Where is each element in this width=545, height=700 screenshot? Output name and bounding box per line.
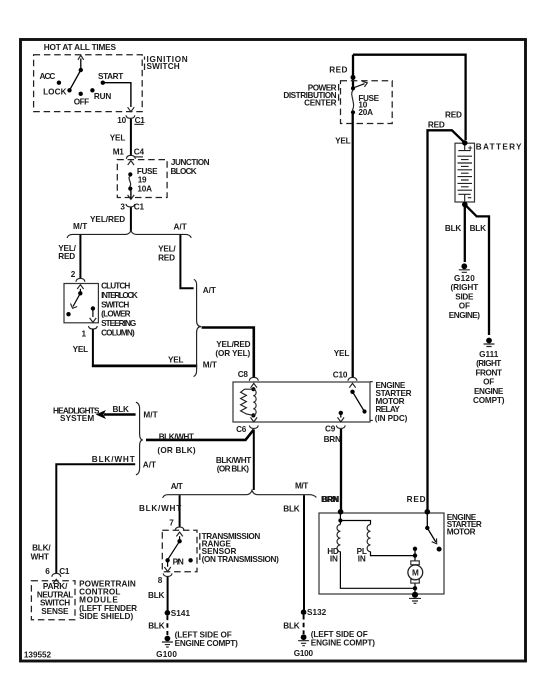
battery [455,143,475,202]
svg-text:SENSE: SENSE [41,607,69,616]
svg-text:BRN: BRN [322,495,339,504]
svg-text:C9: C9 [325,425,336,434]
svg-text:M1: M1 [113,147,125,156]
wire BLK/WHT (A/T) to PCM [56,464,135,573]
connector clutch pin 2 [76,278,85,281]
svg-text:BLK/WHT: BLK/WHT [159,432,194,441]
svg-text:(IN PDC): (IN PDC) [375,414,408,423]
svg-text:STEERING: STEERING [101,319,136,328]
svg-text:(RIGHT: (RIGHT [476,359,501,368]
power feed rail RED [353,55,466,140]
svg-text:M/T: M/T [143,410,157,419]
svg-text:C8: C8 [238,370,249,379]
svg-text:ENGINE): ENGINE) [449,311,480,320]
svg-text:G120: G120 [454,274,475,283]
svg-text:M: M [412,569,419,578]
svg-text:YEL: YEL [168,355,184,364]
connector PCM C1 pin 6 [52,573,61,576]
svg-text:G100: G100 [294,649,314,658]
svg-text:RED: RED [329,66,347,75]
arrow exiting ignition box [128,107,135,112]
relay coil [241,387,257,417]
svg-text:(OR BLK): (OR BLK) [157,446,195,455]
svg-text:S141: S141 [171,609,191,618]
wire C1 to split brace [130,207,132,231]
svg-text:BATTERY: BATTERY [476,142,522,151]
svg-text:1: 1 [82,329,87,338]
connector clutch pin 1 [89,326,98,329]
engine starter motor relay box [233,382,370,422]
svg-text:BLK/WHT: BLK/WHT [216,456,251,465]
svg-text:SYSTEM: SYSTEM [60,414,94,423]
svg-text:3: 3 [120,202,125,211]
lower A/T M/T split brace [163,490,317,498]
svg-text:CLUTCH: CLUTCH [101,282,130,291]
svg-text:C6: C6 [236,425,247,434]
label TRANSMISSION RANGE SENSOR (ON TRANSMISSION) [199,533,201,560]
svg-text:7: 7 [169,518,174,527]
svg-text:M/T: M/T [295,482,308,491]
wire BRN relay C9 to starter [340,429,342,512]
ground G120 [449,263,480,319]
powertrain control module dashed box (park/neutral switch sense) [31,581,75,620]
svg-text:(LEFT SIDE OF: (LEFT SIDE OF [175,630,232,639]
arrow exiting junction block + connector C1 pin 3 [130,191,132,200]
label ENGINE STARTER MOTOR RELAY (IN PDC) [370,381,412,423]
connector TRS pin 8 [163,573,172,576]
dashed wire BLK S132 to G100 [303,615,305,634]
transmission range sensor dashed box [162,530,197,572]
svg-text:START: START [98,72,123,81]
svg-text:6: 6 [45,567,50,576]
A/T M/T merge brace [194,279,202,376]
svg-text:BLK: BLK [283,622,300,631]
svg-text:CENTER: CENTER [304,98,337,107]
svg-text:YEL/: YEL/ [158,244,176,253]
svg-text:A/T: A/T [143,460,156,469]
svg-text:10A: 10A [137,184,152,193]
svg-text:RED: RED [407,495,426,504]
svg-text:A/T: A/T [203,286,216,295]
svg-text:BLK: BLK [148,591,165,600]
svg-text:YEL/RED: YEL/RED [216,340,250,349]
svg-text:M/T: M/T [203,361,217,370]
starter feed wire RED from battery [428,130,465,512]
svg-text:C1: C1 [134,202,145,211]
wire BLK battery to G111 [465,205,489,336]
svg-text:RUN: RUN [94,92,111,101]
svg-text:SIDE: SIDE [455,292,474,301]
M/T A/T split brace [67,231,191,238]
ground G100 left [156,636,177,659]
svg-text:2: 2 [71,270,76,279]
relay coil exit arrow C6 [251,417,258,422]
ignition switch internals [40,55,124,106]
clutch switch internals [66,285,96,323]
right branch wire YEL/RED (A/T) [180,235,193,288]
headlights M/T A/T brace [136,402,143,475]
svg-text:S132: S132 [307,608,327,617]
svg-text:SIDE SHIELD): SIDE SHIELD) [79,612,133,621]
svg-text:RED: RED [428,120,445,129]
junction dot [351,75,356,80]
svg-text:OFF: OFF [74,98,89,107]
wire C6 down to lower brace [253,430,255,491]
svg-text:(ON TRANSMISSION): (ON TRANSMISSION) [202,555,279,564]
wire START to C1 [103,83,131,107]
svg-text:C10: C10 [333,371,348,380]
svg-text:INTERLOCK: INTERLOCK [101,291,138,300]
wire rail to PDC [352,55,354,89]
splice S132 [301,609,307,615]
svg-text:COLUMN): COLUMN) [101,329,135,338]
svg-text:BLK: BLK [445,224,462,233]
junction dots on starter box top [338,509,344,515]
connector TRS pin 7 [175,527,184,530]
svg-text:BLK: BLK [283,504,300,513]
clutch interlock switch box [64,284,98,323]
svg-text:YEL/RED: YEL/RED [90,215,125,224]
relay switch [339,390,367,416]
TRS switch internals [164,532,192,571]
wire YEL/RED (OR YEL) to relay C8 [202,328,254,378]
motor M [411,561,420,565]
svg-text:WHT: WHT [31,552,49,561]
wire YEL ignition to junction block [130,119,132,155]
dashed wire BLK S141 to G100 [166,616,168,635]
ground at starter motor [409,592,421,604]
wire BLK lower brace to S132 [303,495,305,610]
svg-text:C1: C1 [135,116,146,125]
svg-text:(LOWER: (LOWER [101,310,131,319]
svg-text:RED: RED [58,252,75,261]
svg-text:+: + [468,143,473,152]
wire BLK/WHT to transmission range sensor [179,495,181,527]
svg-text:BLOCK: BLOCK [171,167,197,176]
svg-text:BLK: BLK [470,224,487,233]
ignition switch dashed box [34,55,143,112]
wire YEL clutch to M/T merge [92,329,94,364]
label IGNITION SWITCH [144,57,146,71]
svg-text:ENGINE COMPT): ENGINE COMPT) [175,639,238,648]
svg-text:OF: OF [483,378,494,387]
svg-text:A/T: A/T [171,482,183,491]
arrow into junction block [128,161,134,165]
arrow to headlights system [104,413,136,416]
svg-text:COMPT): COMPT) [473,396,505,405]
svg-text:BLK: BLK [113,405,130,414]
junction block dashed box [117,160,167,198]
svg-text:A/T: A/T [174,223,187,232]
svg-text:BLK/: BLK/ [32,544,51,553]
fuse 10 20A in PDC [351,81,380,117]
label POWER DISTRIBUTION CENTER [338,84,340,104]
svg-text:BLK/WHT: BLK/WHT [92,455,135,464]
starter solenoid switch [426,512,428,528]
svg-text:YEL: YEL [110,133,126,142]
ground G111 [473,338,505,406]
svg-text:10: 10 [117,116,126,125]
fuse 19 in junction block [128,167,158,193]
svg-text:SWITCH: SWITCH [147,62,180,71]
wire BLK TRS to S141 [167,577,169,611]
svg-text:YEL: YEL [334,349,350,358]
connector C1 pin 10 [126,115,135,118]
svg-text:(OR BLK): (OR BLK) [217,465,249,474]
svg-text:JUNCTION: JUNCTION [171,158,210,167]
svg-text:RELAY: RELAY [376,405,401,414]
svg-text:BRN: BRN [324,435,341,444]
connector C8 [249,377,258,380]
wire YEL PDC to relay C10 [352,113,354,378]
svg-text:FUSE: FUSE [137,167,158,176]
wire BLK/WHT (OR BLK) from C6 to headlights brace [146,430,254,440]
svg-text:139552: 139552 [24,650,52,659]
svg-text:ACC: ACC [40,72,56,81]
svg-text:YEL: YEL [73,345,89,354]
svg-text:ENGINE COMPT): ENGINE COMPT) [311,639,375,648]
label CLUTCH INTERLOCK SWITCH (LOWER STEERING COLUMN) [101,282,138,338]
left branch wire YEL/RED to clutch switch [79,235,81,278]
svg-text:YEL: YEL [335,137,351,146]
svg-text:OF: OF [459,302,470,311]
engine starter motor box [319,513,444,594]
power distribution center dashed box [341,81,393,124]
svg-text:G100: G100 [156,650,177,659]
svg-text:C1: C1 [59,567,70,576]
svg-text:FRONT: FRONT [475,368,501,377]
PL coil [367,525,370,552]
svg-text:SWITCH: SWITCH [101,300,129,309]
splice S141 [165,610,171,616]
svg-text:RED: RED [158,253,175,262]
svg-text:P/N: P/N [173,557,184,566]
svg-text:(RIGHT: (RIGHT [451,283,479,292]
connector C10 [348,377,357,380]
svg-text:IN: IN [358,554,366,563]
label POWERTRAIN CONTROL MODULE (LEFT FENDER SIDE SHIELD) [79,580,137,621]
svg-text:20A: 20A [358,108,373,117]
svg-text:(OR YEL): (OR YEL) [215,349,250,358]
wire BLK battery to G120 [464,205,466,263]
starter internals [327,512,441,595]
svg-text:BLK/WHT: BLK/WHT [139,504,181,513]
svg-text:8: 8 [158,576,163,585]
svg-text:BLK: BLK [148,622,165,631]
svg-text:ENGINE: ENGINE [474,387,504,396]
svg-text:IN: IN [330,554,338,563]
ground G100 right [294,634,314,658]
svg-text:RED: RED [445,110,462,119]
svg-text:MOTOR: MOTOR [447,528,476,537]
svg-text:M/T: M/T [73,222,87,231]
battery top junction dot [462,140,467,145]
label ENGINE STARTER MOTOR [447,513,482,537]
svg-text:LOCK: LOCK [43,87,66,96]
relay switch exit arrow C9 [340,415,342,418]
HD coil [337,525,340,552]
svg-text:HOT AT ALL TIMES: HOT AT ALL TIMES [44,43,117,52]
battery bottom junction dot [462,202,468,208]
svg-text:C4: C4 [134,147,145,156]
svg-text:G111: G111 [479,350,499,359]
